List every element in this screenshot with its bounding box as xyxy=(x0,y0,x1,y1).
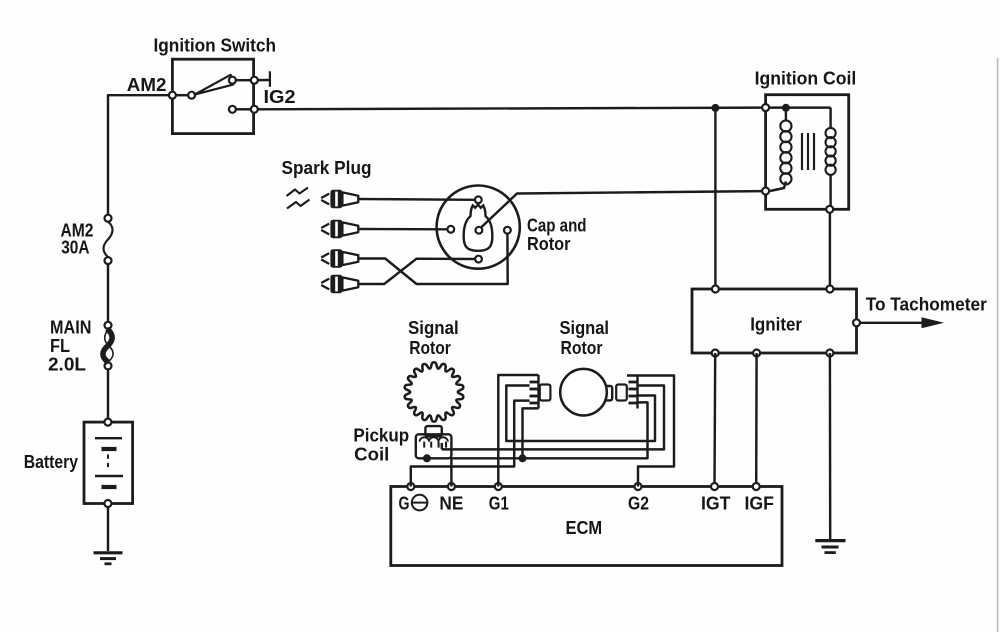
wire: igniter feed vertical xyxy=(714,108,716,289)
signal rotor disc xyxy=(560,369,607,416)
wire: plug 2 to cap xyxy=(358,228,447,231)
G1 pickup box xyxy=(540,385,551,401)
wire: battery feed vertical (AM2 supply) xyxy=(107,95,109,215)
pickup coil body (NE) xyxy=(416,434,452,458)
spark plug 1 xyxy=(321,194,329,198)
svg-text:Rotor: Rotor xyxy=(409,337,451,358)
svg-text:Pickup: Pickup xyxy=(353,425,409,446)
ignition switch box xyxy=(172,59,253,133)
cap terminal: top xyxy=(475,196,482,203)
open terminal tick xyxy=(269,71,271,87)
svg-text:30A: 30A xyxy=(61,237,89,258)
wire: igniter IGT to ECM xyxy=(713,353,716,487)
coil core xyxy=(801,133,803,170)
spark plug 2 xyxy=(321,224,329,228)
svg-text:G: G xyxy=(399,493,410,514)
spark plug 4 xyxy=(321,279,329,283)
pickup coil tab xyxy=(425,426,441,436)
coil primary winding xyxy=(826,128,836,138)
coil internal top wire xyxy=(766,106,831,108)
svg-text:AM2: AM2 xyxy=(127,74,167,95)
signal rotor disc tab xyxy=(601,386,612,400)
svg-text:Rotor: Rotor xyxy=(527,233,571,254)
spark marks xyxy=(287,188,309,197)
wire: NE pickup to ECM NE xyxy=(450,458,452,486)
wire: plug 4 to cap (crossing) xyxy=(358,259,474,284)
battery plates xyxy=(95,437,122,439)
switch arm xyxy=(195,75,234,95)
ECM box xyxy=(391,487,782,566)
G2 pickup comb xyxy=(636,376,638,409)
wire: plug 3 to cap (crossing) xyxy=(358,234,507,284)
coil secondary stub xyxy=(785,108,787,121)
coil secondary outlet to cap xyxy=(770,182,786,192)
G1 pickup comb xyxy=(537,375,539,409)
svg-text:IG2: IG2 xyxy=(264,86,296,107)
wire: tachometer output arrow xyxy=(860,322,926,324)
rotor (inside cap) xyxy=(464,205,493,251)
junction: IG2 / igniter feed xyxy=(711,104,719,112)
fuse AM2 30A xyxy=(105,215,112,222)
svg-text:Rotor: Rotor xyxy=(561,337,603,358)
wire: rotor to coil (high tension) xyxy=(481,191,763,228)
svg-text:Coil: Coil xyxy=(354,444,389,465)
ECM terminals xyxy=(407,483,414,490)
minus-in-circle symbol xyxy=(412,495,428,511)
svg-text:Igniter: Igniter xyxy=(750,314,802,335)
coil secondary winding xyxy=(780,120,791,131)
coil primary stub xyxy=(829,108,831,129)
wire: cross link H_a xyxy=(506,386,655,442)
signal rotor gear xyxy=(405,362,464,421)
wire: plug 1 to cap xyxy=(358,198,474,201)
wire: tie to H2 xyxy=(523,408,539,458)
igniter box xyxy=(692,289,857,353)
switch IG2 contacts xyxy=(229,106,236,113)
cap terminal: bottom xyxy=(475,256,482,263)
svg-text:Battery: Battery xyxy=(24,451,79,472)
ground (igniter) xyxy=(815,539,845,542)
battery terminals xyxy=(104,419,111,426)
igniter terminals bottom xyxy=(712,350,719,357)
svg-text:Signal: Signal xyxy=(408,317,459,338)
coil primary outlet xyxy=(829,174,831,206)
fusible link MAIN FL 2.0L xyxy=(105,322,112,329)
switch arm contact xyxy=(176,94,188,96)
igniter terminals top xyxy=(712,286,719,293)
battery xyxy=(84,422,133,503)
wire: NE pickup inner lead xyxy=(441,443,443,449)
svg-text:To Tachometer: To Tachometer xyxy=(866,294,987,315)
wire: common H2 xyxy=(451,402,647,458)
svg-text:Spark Plug: Spark Plug xyxy=(282,157,372,178)
svg-text:IGF: IGF xyxy=(745,493,775,514)
wire: IG2 to ignition coil xyxy=(258,108,766,110)
wire: common H1 xyxy=(442,386,664,450)
coil terminals xyxy=(762,104,769,111)
ground (battery) xyxy=(94,551,123,554)
wire: G1 lead xyxy=(498,375,538,487)
pickup coil loops xyxy=(420,437,448,441)
svg-text:NE: NE xyxy=(439,493,463,514)
wire: AM2 feed horizontal to ignition switch xyxy=(107,94,169,96)
svg-text:IGT: IGT xyxy=(701,493,731,514)
pickup coil teeth xyxy=(423,442,425,448)
distributor cap circle xyxy=(437,186,520,269)
svg-text:Ignition Switch: Ignition Switch xyxy=(154,35,277,56)
wire: igniter ground xyxy=(829,353,832,540)
svg-text:2.0L: 2.0L xyxy=(48,354,86,375)
svg-text:G2: G2 xyxy=(628,493,649,514)
cap terminal: left xyxy=(447,226,454,233)
junction: pickup coil common xyxy=(423,454,431,462)
scan edge artifact xyxy=(997,58,999,632)
wire: G2 lead xyxy=(627,376,674,487)
svg-text:Signal: Signal xyxy=(560,317,610,338)
wire: G ground lead xyxy=(411,401,530,487)
wire: switch upper output to open terminal xyxy=(236,79,251,81)
wire: igniter IGF to ECM xyxy=(755,353,758,487)
svg-text:Ignition Coil: Ignition Coil xyxy=(755,68,857,89)
switch contact AM2 xyxy=(169,92,176,99)
wire: coil primary to igniter xyxy=(829,213,831,289)
cap terminal: center xyxy=(476,227,483,234)
junction: G lead tie xyxy=(519,454,527,462)
spark plug 3 xyxy=(321,253,329,257)
junction: coil windings tap xyxy=(782,104,790,112)
svg-text:G1: G1 xyxy=(489,493,509,514)
svg-text:ECM: ECM xyxy=(566,517,603,538)
ignition coil box xyxy=(766,95,849,210)
cap terminal: right xyxy=(504,227,511,234)
G2 pickup box xyxy=(616,385,627,401)
igniter terminal right (tach) xyxy=(853,319,860,326)
